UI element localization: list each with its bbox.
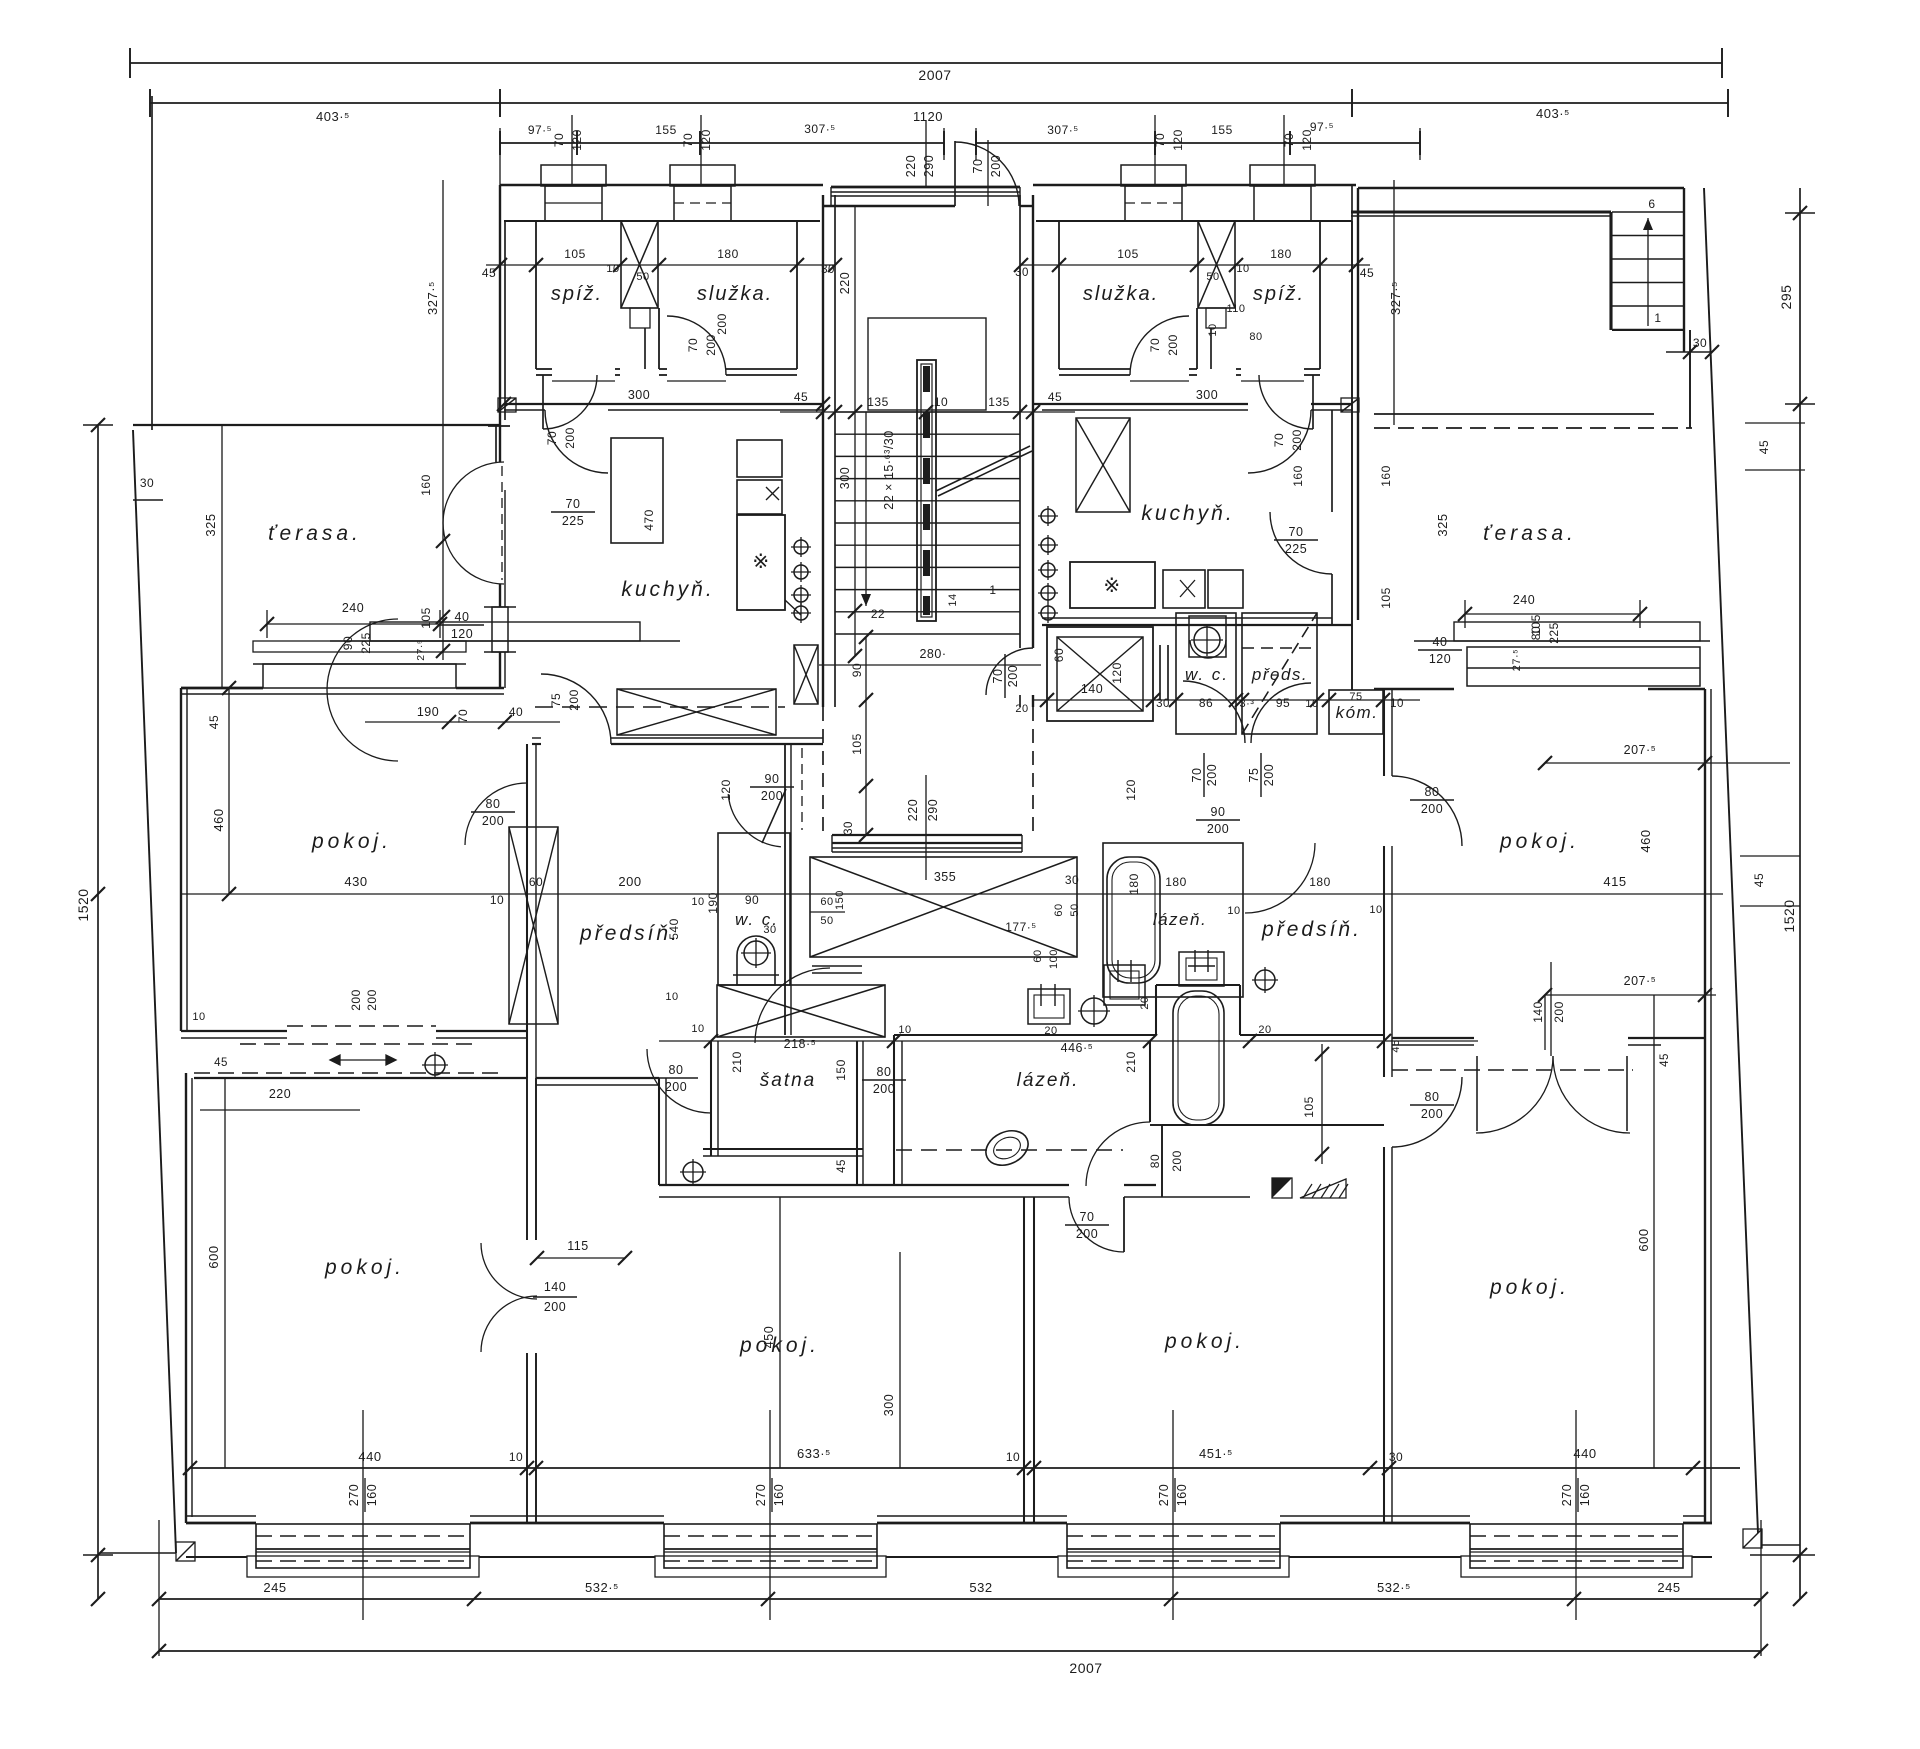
svg-text:45: 45 [482, 266, 496, 280]
svg-text:532·⁵: 532·⁵ [585, 1580, 619, 1595]
left terrace bottom window band [263, 664, 456, 688]
svg-text:30: 30 [1389, 1450, 1403, 1464]
svg-text:200: 200 [715, 313, 729, 335]
svg-text:lázeň.: lázeň. [1017, 1070, 1080, 1091]
satna xbox [717, 985, 885, 1037]
svg-text:kóm.: kóm. [1336, 703, 1379, 722]
svg-text:50: 50 [636, 271, 649, 283]
svg-text:200: 200 [761, 789, 783, 803]
lazen right door [1086, 1122, 1150, 1186]
svg-text:ťerasa.: ťerasa. [268, 522, 362, 545]
left pokoj1 walls [526, 744, 528, 1078]
svg-text:120: 120 [719, 779, 733, 801]
wc right walls [1176, 613, 1236, 734]
svg-text:633·⁵: 633·⁵ [797, 1446, 831, 1461]
wc corridor walls left [784, 744, 786, 1035]
left mid window strip [370, 622, 640, 641]
svg-text:325: 325 [1435, 513, 1450, 536]
dim chain 190/70/40 [365, 721, 560, 723]
svg-text:45: 45 [794, 390, 808, 404]
svg-text:služka.: služka. [1083, 283, 1159, 305]
svg-text:75: 75 [1349, 691, 1362, 703]
right kitchen stove [1070, 562, 1155, 608]
dimension line top overall 2007 [130, 62, 1722, 64]
dim 240 above pokoj1 [267, 623, 440, 625]
svg-text:10: 10 [490, 893, 504, 907]
svg-text:200: 200 [567, 689, 581, 711]
svg-text:300: 300 [838, 467, 852, 489]
svg-text:200: 200 [544, 1300, 566, 1314]
pokoj2 top wall [536, 1077, 659, 1079]
stair bay walls [822, 195, 824, 707]
wc left toilet [737, 936, 775, 985]
svg-text:60: 60 [529, 875, 543, 889]
svg-text:200: 200 [1262, 764, 1276, 786]
lazen oval wc pan [980, 1124, 1033, 1172]
svg-text:160: 160 [1175, 1484, 1189, 1506]
svg-text:80: 80 [1425, 785, 1440, 799]
pokoj1 sliding door [181, 1030, 287, 1032]
svg-text:50: 50 [1206, 271, 1219, 283]
svg-text:90: 90 [341, 636, 355, 650]
mid plan dimension chain y=894 [180, 893, 1723, 895]
svg-text:140: 140 [544, 1280, 566, 1294]
svg-text:22 × 15·⁶³/30: 22 × 15·⁶³/30 [882, 430, 896, 509]
svg-text:180: 180 [1165, 875, 1187, 889]
svg-text:300: 300 [1196, 388, 1218, 402]
lazen nook for tub [1155, 985, 1157, 1035]
svg-text:30: 30 [140, 476, 154, 490]
svg-text:10: 10 [691, 896, 704, 908]
door to right pokoj 80/200 lower [1392, 1077, 1462, 1147]
right kitchen door arc top [1248, 410, 1311, 473]
svg-text:70: 70 [686, 338, 700, 352]
bottom windows [256, 1524, 470, 1568]
svg-text:45: 45 [207, 715, 221, 729]
corridor heater circle [683, 1162, 703, 1182]
svg-text:předsíň.: předsíň. [579, 922, 680, 945]
svg-text:80: 80 [1148, 1154, 1162, 1168]
lift lobby door arc [986, 648, 1033, 695]
svg-text:200: 200 [1166, 334, 1180, 356]
svg-text:1: 1 [1654, 311, 1661, 325]
top-right block window 2 [1121, 165, 1186, 186]
right mid window strip [1454, 622, 1700, 641]
svg-text:90: 90 [765, 772, 780, 786]
svg-text:20: 20 [1015, 703, 1028, 715]
svg-text:225: 225 [1547, 622, 1561, 644]
window dim 270/160 [769, 1410, 771, 1620]
bottom outer wall [186, 1522, 256, 1525]
svg-text:532·⁵: 532·⁵ [1377, 1580, 1411, 1595]
right kitchen bottom wall main [1042, 624, 1352, 626]
svg-text:90: 90 [745, 893, 759, 907]
svg-text:160: 160 [1578, 1484, 1592, 1506]
window dim 270/160 [1575, 1410, 1577, 1620]
double door bottom-left pokoj [526, 1078, 528, 1240]
kom right [1329, 690, 1383, 734]
svg-text:200: 200 [873, 1082, 895, 1096]
svg-text:470: 470 [642, 509, 656, 531]
svg-text:327·⁵: 327·⁵ [425, 281, 440, 315]
wc right toilet [1189, 616, 1226, 657]
right wing outer wall [1704, 689, 1706, 1523]
svg-text:šatna: šatna [760, 1070, 816, 1091]
svg-text:200: 200 [365, 989, 379, 1011]
svg-text:220: 220 [906, 799, 920, 821]
right pokoj top wall [1374, 688, 1454, 690]
svg-text:60: 60 [1052, 648, 1066, 662]
svg-text:45: 45 [1390, 1039, 1402, 1052]
svg-text:307·⁵: 307·⁵ [1047, 123, 1079, 137]
pokoj2 walls [1023, 1197, 1025, 1523]
svg-text:120: 120 [451, 627, 473, 641]
svg-text:30: 30 [1065, 873, 1079, 887]
svg-text:403·⁵: 403·⁵ [1536, 106, 1570, 121]
svg-text:80: 80 [1425, 1090, 1440, 1104]
svg-text:30: 30 [763, 924, 776, 936]
stair mid dim chain 135/10/135 [780, 411, 1075, 413]
spiz room walls right [1319, 221, 1321, 369]
svg-text:70: 70 [1080, 1210, 1095, 1224]
svg-text:70: 70 [991, 669, 1005, 684]
svg-text:105: 105 [1379, 587, 1393, 609]
left wing outer wall [180, 688, 182, 1031]
svg-text:450: 450 [762, 1326, 776, 1348]
svg-text:70: 70 [566, 497, 581, 511]
lift shaft xbox [1047, 627, 1153, 721]
svg-text:135: 135 [988, 395, 1010, 409]
svg-text:200: 200 [563, 427, 577, 449]
kitchen sink unit [737, 440, 782, 477]
svg-text:1520: 1520 [1781, 899, 1797, 932]
stair walking line [865, 412, 867, 606]
stair entrance door [955, 142, 1019, 206]
svg-text:70: 70 [1272, 433, 1286, 447]
lazen left tub in nook [1173, 991, 1224, 1125]
corner marker bottom-left [176, 1542, 195, 1561]
svg-text:160: 160 [419, 474, 433, 496]
svg-text:220: 220 [904, 155, 918, 177]
svg-text:80: 80 [877, 1065, 892, 1079]
kitchen door arc top [545, 410, 608, 473]
corner marker left terrace [498, 398, 516, 412]
svg-text:200: 200 [1207, 822, 1229, 836]
window dim 270/160 [1172, 1410, 1174, 1620]
stair core wall [917, 360, 936, 621]
svg-text:290: 290 [922, 155, 936, 177]
svg-text:ťerasa.: ťerasa. [1483, 522, 1577, 545]
svg-text:97·⁵: 97·⁵ [528, 123, 552, 137]
svg-text:451·⁵: 451·⁵ [1199, 1446, 1233, 1461]
right lazen sink 2 [1104, 965, 1145, 1005]
chain line y=1041 [659, 1040, 1478, 1042]
svg-text:200: 200 [618, 874, 641, 889]
svg-text:210: 210 [1124, 1051, 1138, 1073]
svg-text:155: 155 [655, 123, 677, 137]
svg-text:kuchyň.: kuchyň. [1141, 502, 1234, 525]
svg-text:14: 14 [947, 593, 959, 606]
svg-text:240: 240 [342, 601, 364, 615]
svg-text:2007: 2007 [918, 67, 951, 83]
svg-text:50: 50 [1069, 903, 1081, 916]
svg-text:207·⁵: 207·⁵ [1624, 974, 1657, 988]
svg-text:120: 120 [1429, 652, 1451, 666]
right kitchen sink [1163, 570, 1205, 608]
tall shaft xbox at pokoj1 wall [509, 827, 558, 1024]
svg-text:kuchyň.: kuchyň. [621, 578, 714, 601]
dimension chain top third row [500, 142, 944, 144]
svg-text:86: 86 [1199, 696, 1213, 710]
svg-text:10: 10 [934, 395, 948, 409]
svg-text:spíž.: spíž. [551, 283, 603, 305]
svg-text:80: 80 [1529, 626, 1543, 640]
svg-text:předs.: předs. [1251, 665, 1308, 684]
svg-text:3·³: 3·³ [1240, 698, 1255, 710]
svg-text:430: 430 [344, 874, 367, 889]
svg-text:120: 120 [1300, 129, 1314, 151]
svg-text:177·⁵: 177·⁵ [1005, 920, 1037, 934]
right pokoj dims 207.5 upper [1545, 762, 1790, 764]
svg-text:105: 105 [850, 733, 864, 755]
svg-text:70: 70 [681, 133, 695, 147]
terrace left top wall [133, 424, 500, 426]
svg-text:160: 160 [365, 1484, 379, 1506]
right kitchen right wall [1351, 221, 1353, 625]
svg-text:200: 200 [1006, 665, 1020, 687]
svg-text:532: 532 [969, 1580, 992, 1595]
svg-text:207·⁵: 207·⁵ [1624, 743, 1657, 757]
top-left block window 2 [670, 165, 735, 186]
svg-text:45: 45 [214, 1057, 228, 1069]
stair break line [936, 446, 1030, 491]
spiz room walls [535, 221, 537, 369]
svg-text:180: 180 [1270, 247, 1292, 261]
svg-text:10: 10 [1305, 698, 1318, 710]
svg-text:140: 140 [1531, 1001, 1545, 1023]
satna door arc [647, 1049, 711, 1113]
dimension line left top x=152 [151, 96, 153, 430]
svg-text:200: 200 [349, 989, 363, 1011]
svg-text:403·⁵: 403·⁵ [316, 109, 350, 124]
svg-text:200: 200 [989, 155, 1003, 177]
kitchen bottom wall [532, 743, 541, 745]
sluzka door arc right [1130, 316, 1189, 375]
svg-text:10: 10 [1236, 263, 1249, 275]
right kitchen door arc [1270, 512, 1332, 574]
svg-text:210: 210 [730, 1051, 744, 1073]
right wing partition wall [1383, 689, 1385, 776]
svg-text:105: 105 [1302, 1096, 1316, 1118]
spiz door arc [543, 375, 597, 429]
lazen bottom wall [659, 1184, 1069, 1186]
svg-text:pokoj.: pokoj. [1164, 1330, 1245, 1353]
stair bottom chain 280 [819, 664, 1041, 666]
svg-text:155: 155 [1211, 123, 1233, 137]
right kitchen xbox [1076, 418, 1130, 512]
svg-text:245: 245 [1657, 1580, 1680, 1595]
kitchen dashed beam + counter [535, 706, 785, 708]
door to right pokoj 80/200 upper [1392, 776, 1462, 846]
right hall heater circle [1255, 970, 1275, 990]
svg-text:200: 200 [1205, 764, 1219, 786]
block dim chain y=265 [486, 264, 835, 266]
left apartment hall door arc [755, 968, 830, 1043]
outer wall top-left block [500, 184, 823, 186]
svg-text:pokoj.: pokoj. [1489, 1276, 1570, 1299]
stair bay bottom wall with transom [832, 834, 1022, 836]
dimension chain bottom 245/532.5/532/532.5/245 [159, 1598, 1761, 1600]
svg-text:300: 300 [882, 1394, 896, 1416]
svg-text:60: 60 [1032, 949, 1044, 962]
right upper pokoj bottom wall [1392, 1037, 1474, 1039]
spiz door arc right [1259, 375, 1313, 429]
corner marker right terrace [1341, 398, 1359, 412]
svg-text:10: 10 [665, 991, 678, 1003]
svg-text:270: 270 [754, 1484, 768, 1506]
svg-text:95: 95 [1276, 696, 1290, 710]
svg-text:200: 200 [1290, 429, 1304, 451]
top-left block window 1 [541, 165, 606, 186]
lazen right walls [1103, 843, 1243, 997]
svg-text:10: 10 [1207, 323, 1219, 336]
svg-text:30: 30 [843, 821, 855, 835]
svg-text:80: 80 [486, 797, 501, 811]
right kitchen bottom inner [1042, 617, 1332, 619]
svg-text:120: 120 [1171, 129, 1185, 151]
sluzka partition [658, 308, 660, 369]
kitchen stove [737, 515, 785, 610]
top-right block window 1 [1250, 165, 1315, 186]
stair treads [835, 411, 1020, 413]
svg-text:70: 70 [1289, 525, 1304, 539]
svg-text:45: 45 [1757, 440, 1771, 454]
block dim chain right [1021, 264, 1370, 266]
balcony door left wall [443, 462, 504, 584]
svg-text:355: 355 [934, 870, 956, 884]
svg-text:190: 190 [706, 892, 720, 914]
svg-text:225: 225 [359, 632, 373, 654]
svg-text:služka.: služka. [697, 283, 773, 305]
svg-text:245: 245 [263, 1580, 286, 1595]
svg-text:2007: 2007 [1069, 1660, 1102, 1676]
svg-text:600: 600 [206, 1245, 221, 1268]
svg-text:70: 70 [552, 133, 566, 147]
pokoj2 door 70/200 [1123, 1197, 1125, 1252]
svg-text:70: 70 [971, 159, 985, 174]
svg-text:160: 160 [1379, 465, 1393, 487]
svg-text:80: 80 [669, 1063, 684, 1077]
lazen right sink [1179, 952, 1224, 986]
pokoj3 top boundary [1162, 1124, 1384, 1126]
kitchen bottom door arc [541, 674, 611, 744]
svg-text:200: 200 [704, 334, 718, 356]
sluzka door arc [667, 316, 726, 375]
wc door arc [728, 794, 781, 847]
svg-text:70: 70 [1190, 768, 1204, 783]
svg-text:160: 160 [772, 1484, 786, 1506]
kitchen island table [611, 438, 663, 543]
svg-text:10: 10 [192, 1011, 205, 1023]
svg-text:10: 10 [509, 1450, 523, 1464]
stair bay top window [831, 186, 1020, 189]
svg-text:45: 45 [1659, 1053, 1671, 1067]
window dim 270/160 [362, 1410, 364, 1620]
svg-text:27·⁵: 27·⁵ [415, 639, 427, 661]
dimension line right 295/1520 [1799, 188, 1801, 1599]
sluzka partition right [1196, 308, 1198, 369]
svg-text:440: 440 [1573, 1446, 1596, 1461]
dimension line left 1520 [97, 425, 99, 1599]
svg-text:105: 105 [1117, 247, 1139, 261]
svg-text:※: ※ [1103, 575, 1120, 597]
svg-text:120: 120 [1110, 662, 1124, 684]
svg-text:110: 110 [1226, 303, 1245, 315]
svg-text:225: 225 [1285, 542, 1307, 556]
svg-text:75: 75 [1247, 768, 1261, 783]
svg-text:30: 30 [1156, 698, 1170, 710]
wardrobe xbox corridor [810, 857, 1077, 957]
flue xbox between spiz/sluzka [621, 221, 658, 308]
svg-text:40: 40 [1433, 635, 1448, 649]
svg-text:270: 270 [347, 1484, 361, 1506]
svg-text:45: 45 [1048, 390, 1062, 404]
svg-text:spíž.: spíž. [1253, 283, 1305, 305]
svg-text:45: 45 [836, 1159, 848, 1173]
svg-text:180: 180 [717, 247, 739, 261]
svg-text:předsíň.: předsíň. [1261, 918, 1362, 941]
svg-text:295: 295 [1778, 285, 1794, 310]
dim 207.5 lower [1545, 994, 1716, 996]
svg-text:※: ※ [752, 551, 769, 573]
svg-text:220: 220 [269, 1087, 291, 1101]
svg-text:300: 300 [628, 388, 650, 402]
svg-text:415: 415 [1603, 874, 1626, 889]
svg-text:180: 180 [1127, 873, 1141, 895]
svg-text:120: 120 [1124, 779, 1138, 801]
svg-text:10: 10 [1227, 905, 1240, 917]
svg-text:90: 90 [850, 663, 864, 677]
svg-text:60: 60 [1053, 903, 1065, 916]
svg-text:270: 270 [1560, 1484, 1574, 1506]
svg-text:pokoj.: pokoj. [311, 830, 392, 853]
lazen dashed line [896, 1149, 1123, 1151]
svg-text:70: 70 [456, 709, 470, 723]
svg-text:270: 270 [1157, 1484, 1171, 1506]
kitchen top wall left [504, 403, 823, 405]
lazen left walls [894, 1034, 1156, 1036]
svg-text:pokoj.: pokoj. [324, 1256, 405, 1279]
svg-text:150: 150 [834, 890, 846, 910]
svg-text:90: 90 [1211, 805, 1226, 819]
svg-text:100: 100 [1048, 949, 1060, 969]
right terrace step wall [1689, 330, 1691, 428]
svg-text:1520: 1520 [75, 888, 91, 921]
sink and heater above lazen [1028, 989, 1070, 1024]
svg-text:190: 190 [417, 705, 439, 719]
svg-text:600: 600 [1636, 1228, 1651, 1251]
svg-text:446·⁵: 446·⁵ [1061, 1041, 1094, 1055]
hatch marks floor symbols [1272, 1178, 1292, 1198]
svg-text:75: 75 [549, 693, 563, 707]
lobby window dim riser [925, 775, 927, 880]
left dims on x=443 [442, 425, 444, 660]
svg-text:200: 200 [1421, 1107, 1443, 1121]
dimension chain bottom rooms 440/10/633.5/10/451.5/30/440 [190, 1467, 1740, 1469]
doors below wc/preds [1183, 681, 1245, 743]
satna room [710, 1041, 712, 1156]
svg-text:307·⁵: 307·⁵ [804, 122, 836, 136]
